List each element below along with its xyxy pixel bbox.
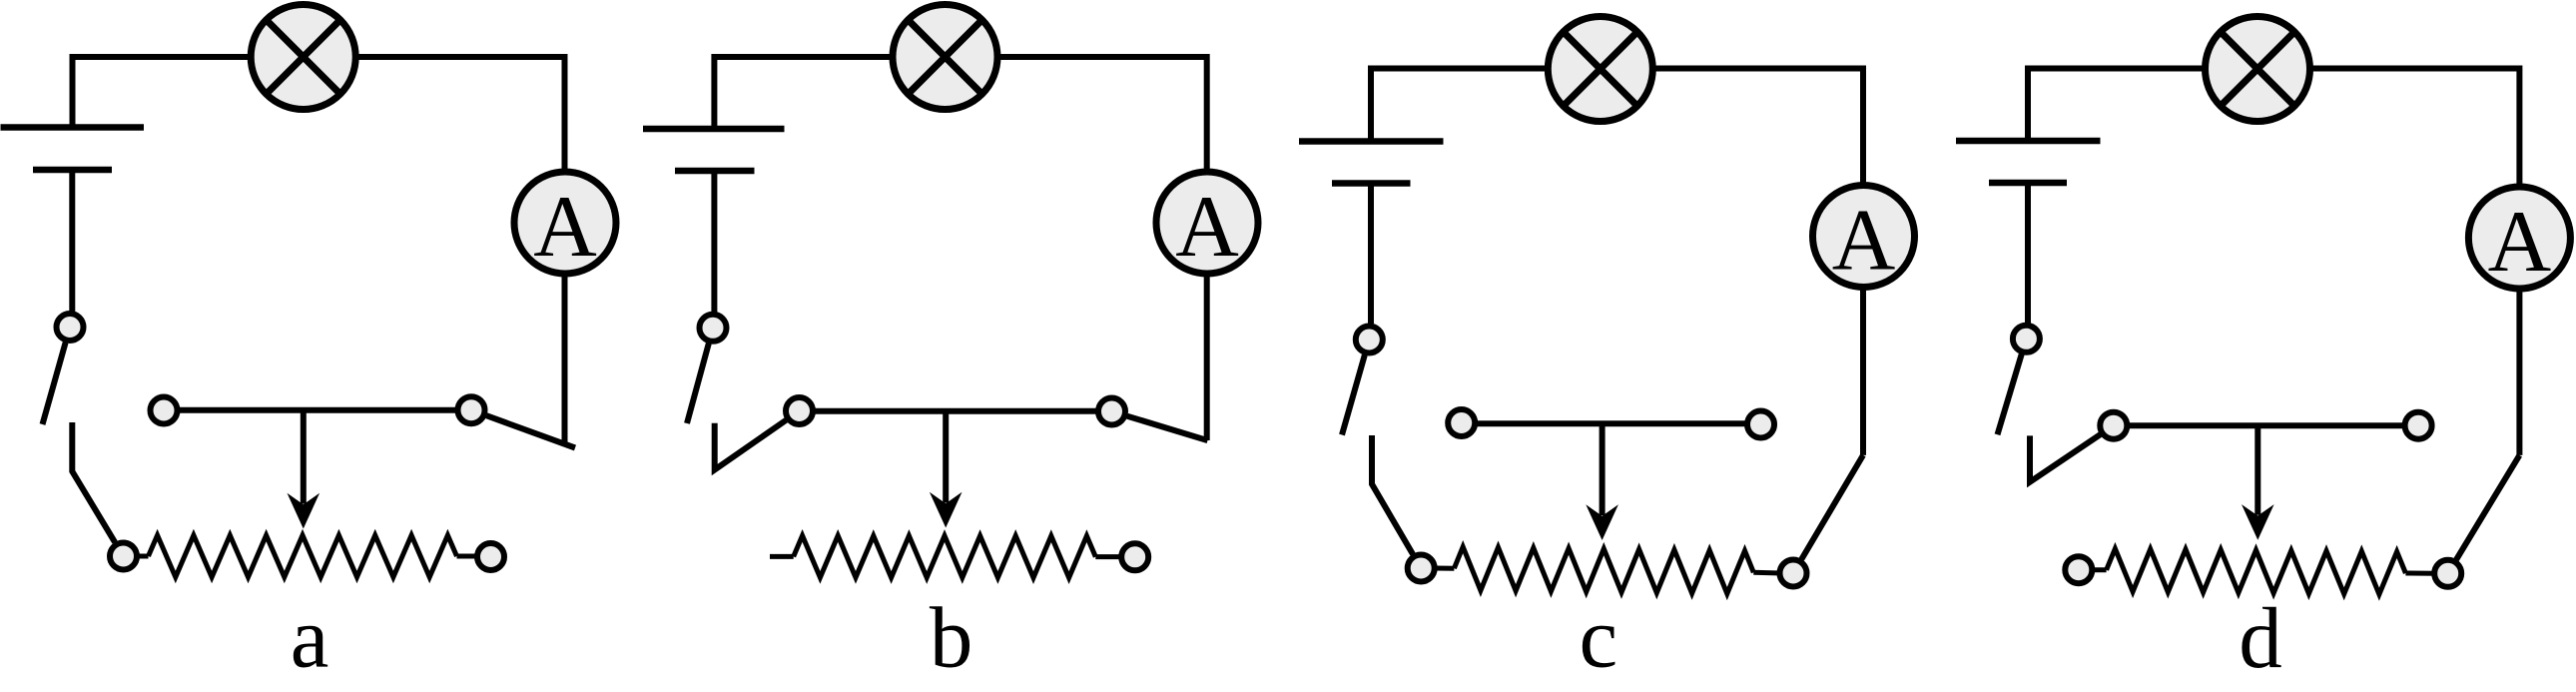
circuit d — rheostat slider bar (2127, 422, 2404, 428)
circuit d — switch lever (open) (1998, 354, 2022, 435)
circuit c — rheostat upper-right terminal (unused) (1747, 411, 1774, 438)
circuit c — label c (1579, 588, 1617, 685)
circuit d — battery: long (+) plate (1956, 138, 2101, 145)
circuit a — battery: long (+) plate (1, 124, 145, 131)
circuit d — label d (2239, 589, 2282, 686)
circuit c — wire: switch to rheostat lower-left terminal (1372, 435, 1413, 554)
circuit a — rheostat resistor body (zigzag) (137, 535, 477, 577)
circuit b — rheostat slider bar (813, 408, 1098, 414)
svg-text:A: A (533, 179, 597, 276)
circuit c — rheostat lower-left terminal (1408, 555, 1435, 582)
circuit a — rheostat wiper arrow (288, 410, 321, 529)
svg-text:d: d (2239, 589, 2282, 686)
circuit c — switch pivot terminal (1356, 327, 1383, 353)
circuit b — ammeter A (1156, 172, 1258, 276)
circuit a — rheostat slider bar (178, 407, 458, 413)
circuit d — ammeter A (2468, 187, 2570, 291)
circuit a — wire: battery − terminal down to switch (69, 170, 75, 312)
circuit b — battery: long (+) plate (643, 126, 785, 133)
circuit b — switch pivot terminal (700, 315, 727, 342)
circuit d — rheostat upper-left terminal (2100, 412, 2127, 439)
circuit c — rheostat slider bar (floating) (1475, 420, 1747, 426)
svg-text:a: a (291, 589, 329, 686)
circuit b — wire: battery + terminal up and across to lamp (714, 57, 894, 129)
svg-text:A: A (1832, 193, 1896, 290)
circuit c — lever wire: ammeter branch to rheostat lower-right terminal (1801, 455, 1863, 559)
circuit d — battery: short (−) plate (1989, 180, 2067, 187)
circuit c — rheostat lower-right terminal (1780, 560, 1807, 587)
circuit c — battery: short (−) plate (1332, 180, 1411, 187)
circuit d — rheostat lower-left terminal (unused) (2065, 556, 2092, 583)
svg-text:b: b (930, 589, 973, 686)
circuit a — wire: battery + terminal up and across to lamp (73, 57, 253, 128)
circuit b — lever wire: slider terminal to ammeter branch (1127, 416, 1208, 440)
circuit a — battery: short (−) plate (33, 167, 112, 174)
circuit b — wire: switch to rheostat upper-left terminal (715, 420, 787, 470)
circuit d — rheostat upper-right terminal (unused) (2405, 412, 2432, 439)
circuit c — rheostat wiper arrow (1586, 423, 1618, 540)
svg-text:A: A (1175, 179, 1239, 276)
circuit d — wire: lamp to top-right corner down to ammeter branch (2308, 69, 2519, 455)
circuit a — switch pivot terminal (57, 314, 84, 341)
circuit c — switch lever (open) (1342, 355, 1365, 435)
circuit c — wire: battery + terminal up and across to lamp (1371, 69, 1549, 142)
circuit a — wire: lamp to top-right corner down to ammeter (354, 57, 565, 445)
circuit a — rheostat lower-left terminal (110, 543, 137, 570)
circuit c — wire: battery − terminal down to switch (1368, 184, 1374, 325)
circuit c — battery: long (+) plate (1299, 138, 1444, 145)
circuit d — wire: battery + terminal up and across to lamp (2028, 69, 2206, 142)
circuit b — rheostat upper-left terminal (786, 397, 813, 424)
circuit c — rheostat resistor body (zigzag) (1435, 547, 1780, 594)
circuit a — rheostat upper-right terminal (458, 396, 485, 423)
circuit a — wire: switch to rheostat lower-left terminal (72, 422, 115, 542)
circuit c — lamp (1548, 17, 1652, 122)
circuit a — rheostat lower-right terminal (unused) (477, 543, 504, 570)
svg-text:c: c (1579, 588, 1617, 685)
circuit a — ammeter A (514, 172, 616, 276)
circuit a — lamp (251, 5, 355, 110)
circuit d — wire: switch to rheostat upper-left terminal (2030, 434, 2100, 481)
circuit c — ammeter A (1813, 186, 1915, 290)
circuit b — label b (930, 589, 973, 686)
circuit d — rheostat lower-right terminal (2434, 560, 2461, 587)
circuit b — lamp (893, 5, 997, 110)
circuit b — wire: lamp to top-right corner down to ammeter branch (996, 57, 1207, 440)
circuit d — rheostat wiper arrow (2242, 425, 2274, 540)
svg-text:A: A (2488, 194, 2552, 291)
circuit a — label a (291, 589, 329, 686)
circuit a — switch lever (open) (43, 343, 66, 424)
circuit b — rheostat resistor body (zigzag) (770, 535, 1121, 577)
circuit b — wire: battery − terminal down to switch (711, 171, 717, 313)
circuit a — rheostat upper-left terminal (unused) (151, 397, 178, 424)
circuit b — switch lever (open) (687, 344, 709, 423)
circuit c — wire: lamp to top-right corner down to ammeter branch (1651, 69, 1863, 455)
circuit b — rheostat wiper arrow (930, 411, 963, 528)
circuit a — lever wire: slider terminal to ammeter branch (486, 415, 575, 447)
circuit b — battery: short (−) plate (675, 168, 755, 175)
circuit d — wire: battery − terminal down to switch (2025, 183, 2031, 324)
circuit b — rheostat upper-right terminal (1098, 398, 1125, 425)
circuit d — lamp (2206, 17, 2310, 122)
circuit b — rheostat lower-right terminal (unused) (1121, 543, 1148, 570)
circuit c — rheostat upper-left terminal (unused) (1448, 409, 1475, 436)
circuit d — switch pivot terminal (2013, 326, 2040, 352)
circuit d — rheostat resistor body (zigzag) (2092, 548, 2434, 594)
circuit d — lever wire: ammeter branch to rheostat lower-right terminal (2456, 455, 2519, 560)
